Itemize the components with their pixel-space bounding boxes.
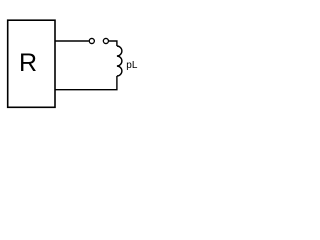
inductor pL coil — [117, 46, 122, 76]
wire from terminal to inductor top — [109, 41, 117, 46]
open terminal circle left — [89, 38, 94, 43]
wire inductor bottom back to box — [55, 76, 117, 90]
resistor R (box) — [8, 20, 55, 107]
open terminal circle right — [103, 38, 108, 43]
svg-text:pL: pL — [126, 60, 138, 71]
wire top from box to terminal — [55, 40, 89, 42]
svg-text:R: R — [19, 49, 37, 77]
